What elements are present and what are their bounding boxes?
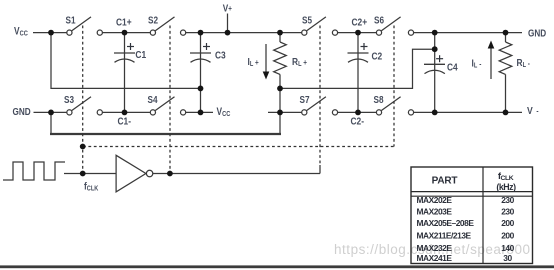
svg-text:C1: C1	[135, 49, 146, 61]
svg-text:S7: S7	[300, 93, 310, 105]
svg-text:C1+: C1+	[116, 17, 132, 29]
svg-text:MAX205E–208E: MAX205E–208E	[417, 218, 475, 228]
svg-text:C4: C4	[447, 62, 458, 74]
svg-text:200: 200	[501, 218, 514, 228]
svg-text:MAX241E: MAX241E	[417, 253, 453, 263]
svg-text:(kHz): (kHz)	[496, 182, 516, 192]
svg-text:S4: S4	[148, 93, 159, 105]
svg-text:S1: S1	[66, 13, 76, 25]
svg-text:VCC: VCC	[14, 25, 28, 37]
svg-text:MAX232E: MAX232E	[417, 243, 453, 253]
svg-text:140: 140	[501, 243, 514, 253]
svg-text:S2: S2	[148, 13, 158, 25]
svg-text:C2: C2	[372, 51, 383, 63]
svg-text:S3: S3	[64, 93, 74, 105]
svg-text:230: 230	[501, 195, 514, 205]
svg-text:30: 30	[503, 253, 512, 263]
svg-text:MAX202E: MAX202E	[417, 195, 453, 205]
svg-text:PART: PART	[432, 175, 458, 186]
svg-text:C1-: C1-	[118, 116, 132, 128]
svg-text:230: 230	[501, 207, 514, 217]
svg-text:MAX203E: MAX203E	[417, 207, 453, 217]
svg-text:V+: V+	[223, 2, 232, 14]
svg-text:V-: V-	[527, 105, 539, 117]
svg-text:RL -: RL -	[517, 57, 531, 69]
svg-text:MAX211E/213E: MAX211E/213E	[417, 230, 472, 240]
svg-text:S6: S6	[374, 13, 384, 25]
svg-text:C2-: C2-	[351, 116, 365, 128]
svg-text:IL +: IL +	[248, 56, 259, 68]
svg-text:GND: GND	[528, 26, 546, 38]
svg-text:C2+: C2+	[352, 17, 368, 29]
svg-text:S5: S5	[302, 13, 312, 25]
svg-text:fCLK: fCLK	[498, 171, 514, 182]
svg-text:GND: GND	[13, 105, 31, 117]
svg-text:fCLK: fCLK	[84, 180, 99, 192]
svg-text:IL-: IL-	[472, 58, 482, 70]
svg-text:RL +: RL +	[292, 56, 307, 68]
svg-text:C3: C3	[215, 50, 226, 62]
svg-text:VCC: VCC	[217, 106, 231, 118]
svg-text:200: 200	[501, 230, 514, 240]
svg-text:S8: S8	[374, 93, 384, 105]
